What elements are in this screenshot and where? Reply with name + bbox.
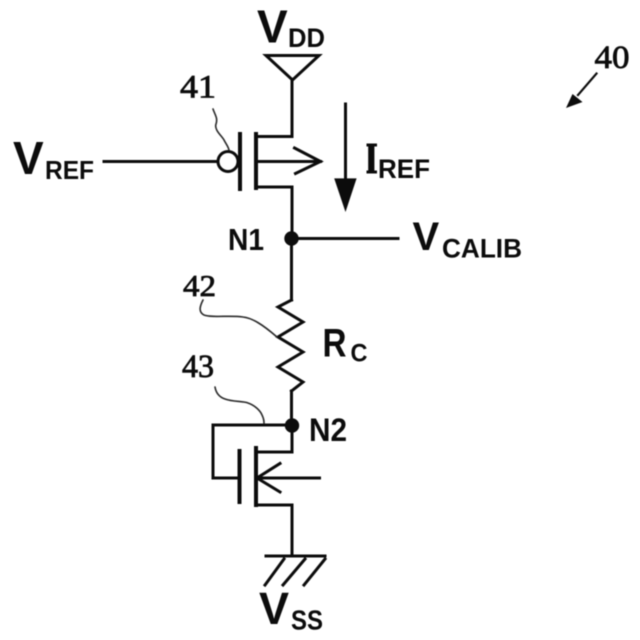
svg-text:43: 43 [182,349,214,385]
svg-text:REF: REF [45,155,94,185]
svg-text:R: R [323,322,347,366]
svg-text:DD: DD [288,23,325,53]
svg-text:CALIB: CALIB [442,234,522,264]
svg-text:REF: REF [378,154,430,184]
svg-text:41: 41 [180,70,216,106]
svg-text:40: 40 [595,40,630,76]
svg-text:C: C [351,340,368,368]
svg-text:V: V [259,583,289,634]
svg-text:N1: N1 [228,222,264,257]
svg-text:SS: SS [291,605,323,636]
svg-text:V: V [413,215,440,259]
svg-text:V: V [257,1,288,53]
svg-text:42: 42 [183,268,216,303]
svg-text:N2: N2 [309,412,347,448]
svg-text:V: V [13,132,44,184]
